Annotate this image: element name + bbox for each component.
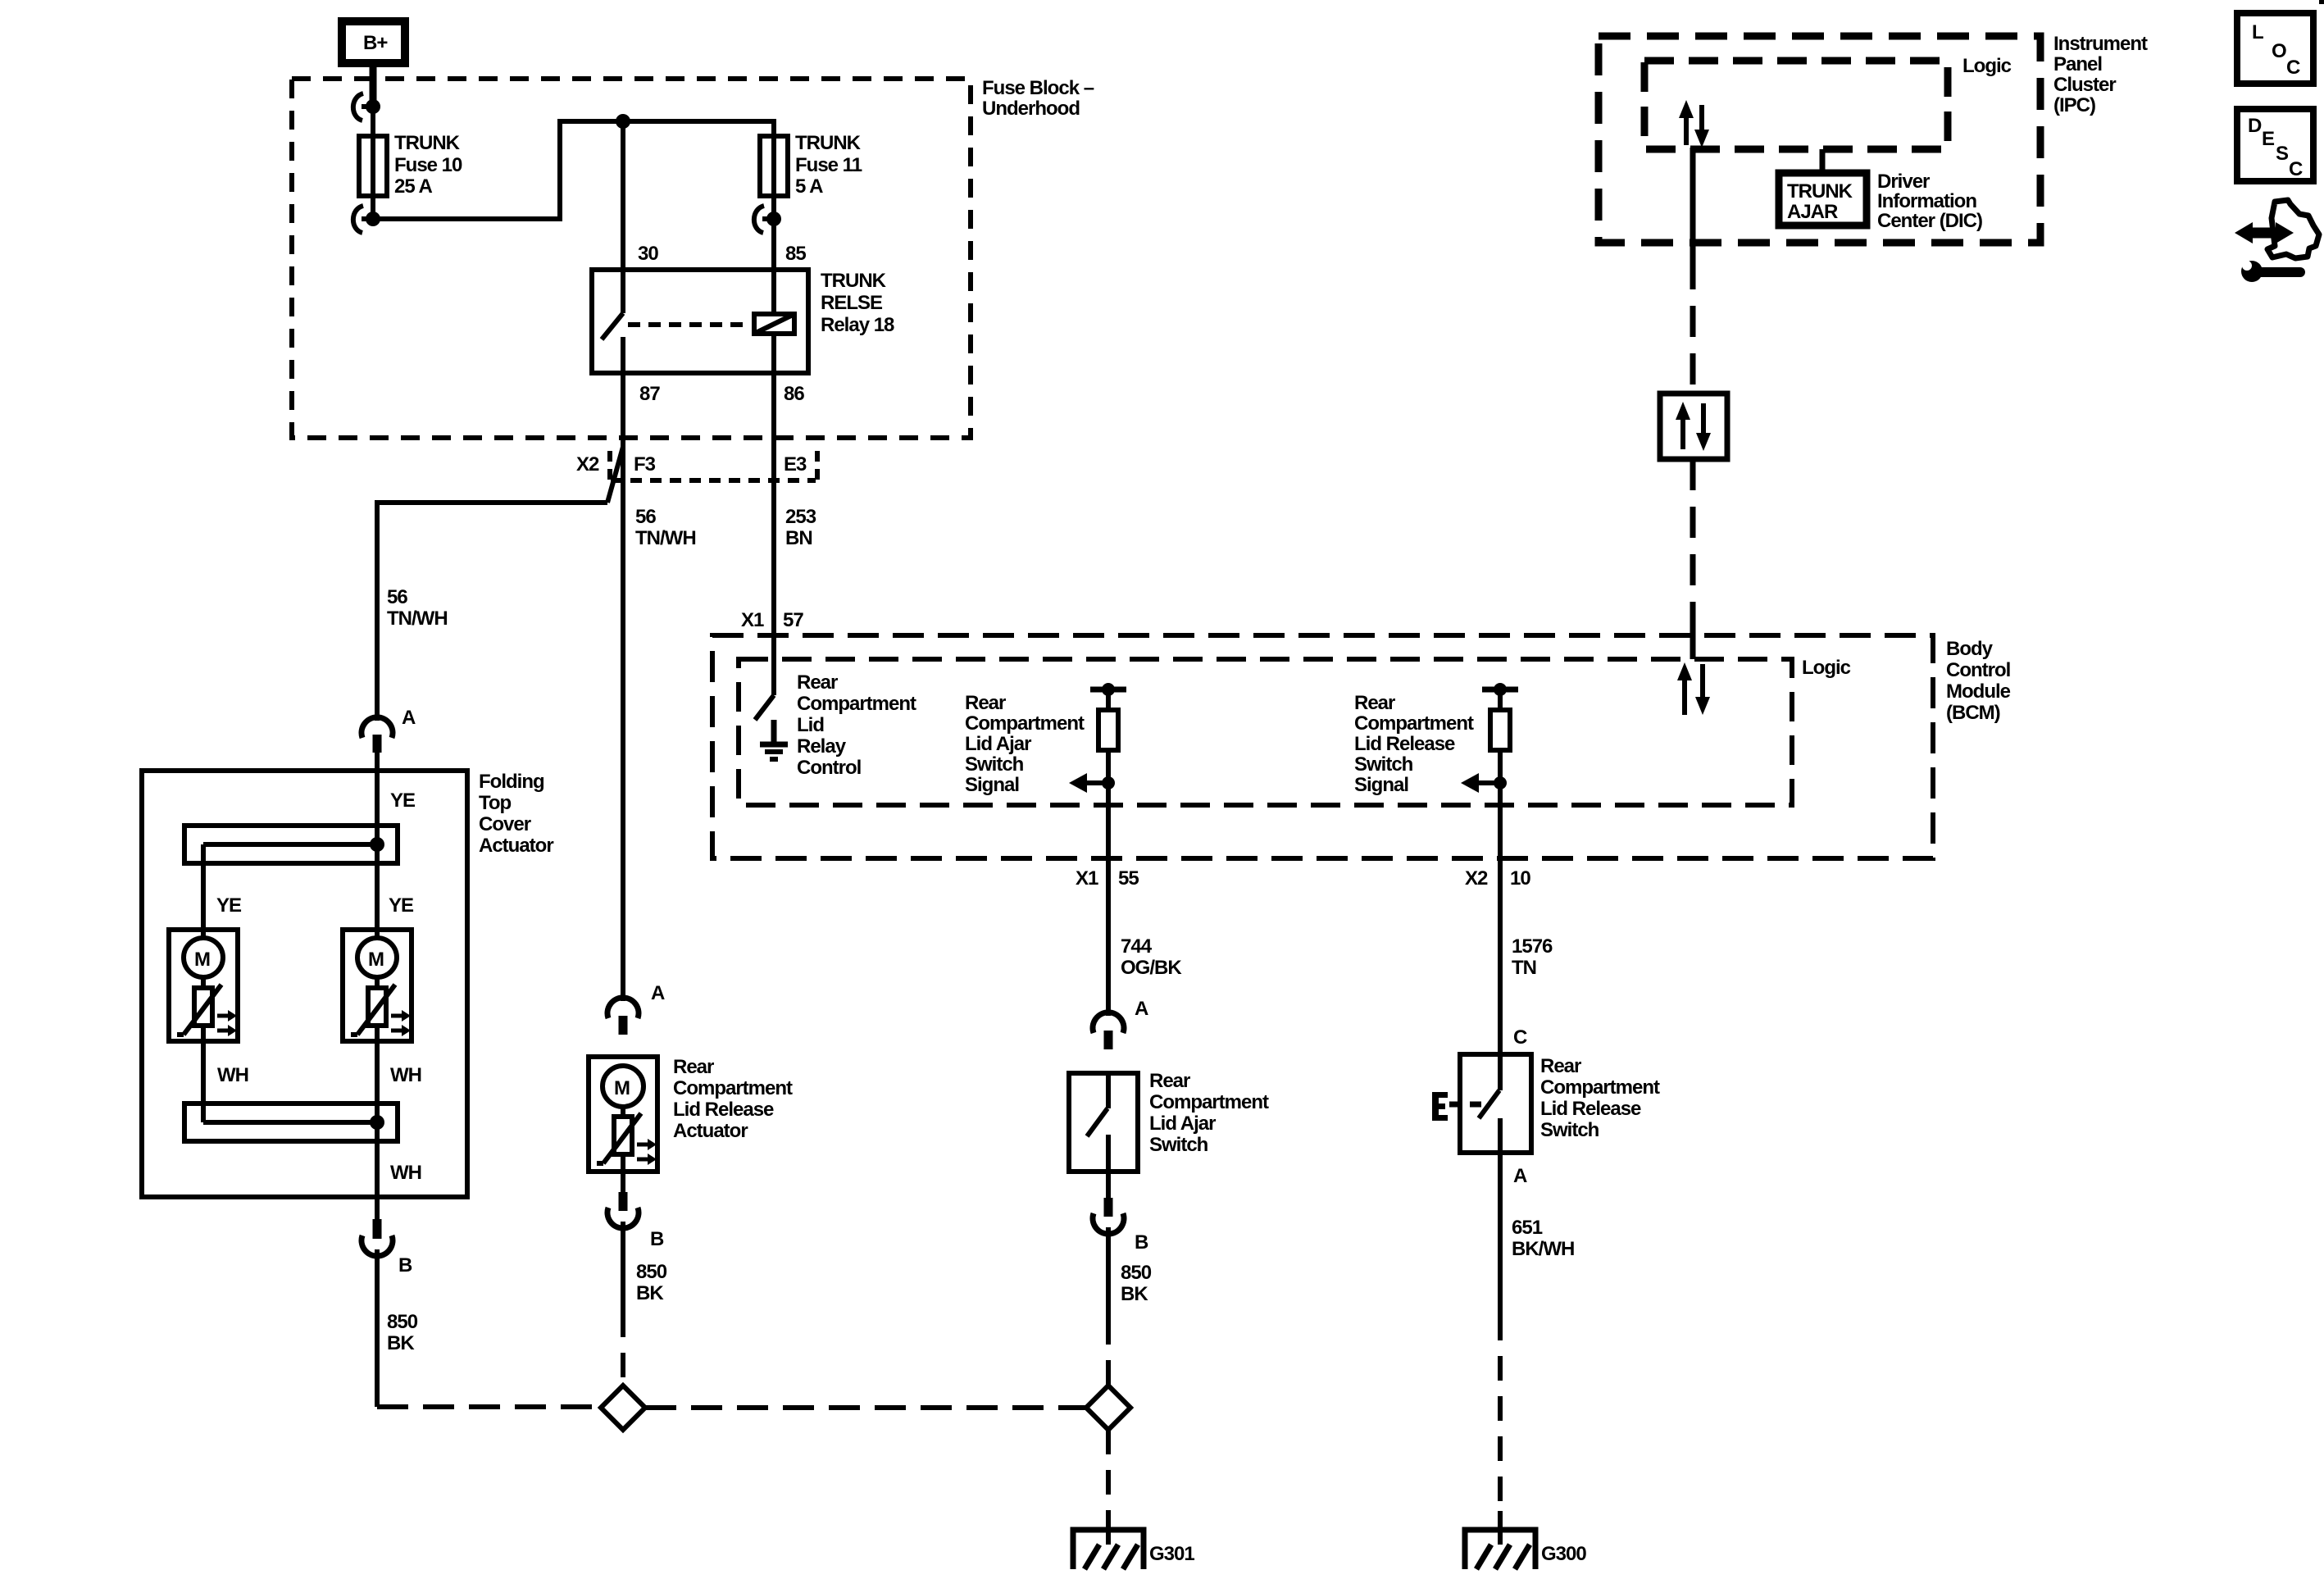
- wire left branch top: [201, 844, 206, 938]
- label Body Control Module (BCM): [1946, 638, 2011, 724]
- svg-text:Module: Module: [1946, 680, 2011, 703]
- svg-text:1576: 1576: [1512, 935, 1553, 958]
- svg-text:Panel: Panel: [2053, 53, 2102, 75]
- legend service icon wrench: [2241, 261, 2300, 282]
- svg-text:Rear: Rear: [1540, 1055, 1581, 1077]
- BCM relay control switch to ground: [755, 695, 788, 759]
- wire left branch bottom: [201, 1026, 206, 1122]
- label 744 OG/BK: [1121, 935, 1182, 979]
- svg-text:Center (DIC): Center (DIC): [1877, 210, 1982, 232]
- svg-text:253: 253: [785, 506, 816, 528]
- label 253 BN: [785, 506, 816, 549]
- svg-text:C: C: [2289, 158, 2303, 180]
- svg-text:TRUNK: TRUNK: [1787, 180, 1853, 202]
- svg-text:850: 850: [1121, 1262, 1152, 1284]
- svg-text:Lid Ajar: Lid Ajar: [1149, 1113, 1216, 1135]
- equalizer bar top: [184, 826, 398, 863]
- svg-text:85: 85: [785, 243, 806, 265]
- svg-text:B: B: [650, 1228, 664, 1250]
- svg-text:10: 10: [1510, 867, 1530, 890]
- fuse clip bottom of fuse 11: [754, 206, 781, 233]
- svg-text:(BCM): (BCM): [1946, 702, 2000, 724]
- svg-text:Signal: Signal: [965, 774, 1019, 796]
- label Rear Compartment Lid Ajar Switch: [1149, 1070, 1269, 1156]
- svg-text:Switch: Switch: [1354, 753, 1413, 776]
- label Rear Compartment Lid Release Switch: [1540, 1055, 1660, 1141]
- svg-text:Cluster: Cluster: [2053, 74, 2116, 96]
- svg-text:Lid Ajar: Lid Ajar: [965, 733, 1031, 755]
- label 850 BK ajar: [1121, 1262, 1152, 1305]
- svg-text:Body: Body: [1946, 638, 1994, 660]
- relay K18 TRUNK RELSE Relay 18: [592, 270, 894, 373]
- svg-text:Actuator: Actuator: [479, 835, 553, 857]
- label 651 BK/WH: [1512, 1217, 1574, 1260]
- wire 850 BK actuator to splice: [621, 1222, 625, 1386]
- svg-text:Rear: Rear: [1149, 1070, 1190, 1092]
- fuse clip bottom of fuse 10: [353, 206, 380, 233]
- svg-text:X1: X1: [1076, 867, 1098, 890]
- svg-text:86: 86: [784, 383, 804, 405]
- legend service icon trunk outline: [2267, 200, 2319, 258]
- svg-text:A: A: [402, 707, 416, 729]
- label Rear Compartment Lid Ajar Switch Signal: [965, 692, 1085, 796]
- svg-text:L: L: [2252, 21, 2263, 43]
- svg-text:Lid Release: Lid Release: [673, 1099, 774, 1121]
- svg-text:BK/WH: BK/WH: [1512, 1238, 1574, 1260]
- wire 850 BK ajar to splice 2: [1106, 1227, 1111, 1386]
- svg-text:B: B: [1135, 1231, 1148, 1254]
- svg-text:Rear: Rear: [797, 671, 838, 694]
- svg-text:A: A: [1135, 998, 1148, 1020]
- BCM serial data arrows: [1677, 662, 1710, 715]
- svg-text:Rear: Rear: [965, 692, 1006, 714]
- wire logic to trunk ajar indicator: [1820, 149, 1826, 173]
- wire 253 BN relay 86 to BCM: [771, 373, 776, 695]
- svg-text:57: 57: [783, 609, 803, 631]
- svg-text:F3: F3: [634, 453, 656, 476]
- wire resistor to X2 10: [1498, 750, 1503, 1054]
- svg-text:BK: BK: [636, 1282, 664, 1304]
- svg-text:744: 744: [1121, 935, 1153, 958]
- serial data gateway box with arrows: [1660, 394, 1727, 459]
- BCM ajar signal sense arrow: [1069, 773, 1115, 793]
- svg-text:Compartment: Compartment: [673, 1077, 793, 1099]
- connector A release actuator: [607, 982, 665, 1035]
- svg-text:Cover: Cover: [479, 813, 531, 835]
- svg-text:Lid Release: Lid Release: [1540, 1098, 1641, 1120]
- svg-text:E3: E3: [784, 453, 807, 476]
- connector B ajar switch: [1093, 1198, 1148, 1254]
- svg-text:Actuator: Actuator: [673, 1120, 748, 1142]
- ground G300: [1465, 1511, 1586, 1569]
- svg-text:X2: X2: [576, 453, 599, 476]
- svg-text:BK: BK: [387, 1332, 415, 1354]
- svg-text:Switch: Switch: [1149, 1134, 1208, 1156]
- svg-text:X1: X1: [741, 609, 764, 631]
- equalizer bar bottom: [184, 1103, 398, 1141]
- svg-text:WH: WH: [390, 1064, 421, 1086]
- svg-text:55: 55: [1118, 867, 1139, 890]
- svg-text:A: A: [1513, 1165, 1527, 1187]
- svg-text:Relay 18: Relay 18: [821, 314, 894, 336]
- svg-text:Compartment: Compartment: [1149, 1091, 1269, 1113]
- svg-text:Control: Control: [797, 757, 861, 779]
- wire fuse 11 to relay pin 85: [771, 136, 776, 270]
- svg-text:G300: G300: [1541, 1543, 1586, 1565]
- fuse F10 TRUNK Fuse 10 25 A: [359, 132, 462, 198]
- wire main feed through actuator: [375, 753, 380, 1219]
- connector X1 pin 55: [1076, 867, 1139, 890]
- IPC logic arrows: [1679, 100, 1709, 148]
- svg-text:B: B: [398, 1254, 412, 1276]
- fuse clip top of fuse 10: [353, 93, 380, 121]
- svg-text:YE: YE: [390, 789, 416, 812]
- svg-text:56: 56: [635, 506, 656, 528]
- motor M2 folding top right: [343, 930, 412, 1041]
- instrument panel cluster IPC outer box: [1599, 36, 2040, 243]
- svg-text:TN/WH: TN/WH: [635, 527, 696, 549]
- svg-text:Rear: Rear: [673, 1056, 714, 1078]
- body control module BCM outer box: [712, 635, 1933, 858]
- svg-text:O: O: [2272, 40, 2286, 62]
- svg-text:850: 850: [636, 1261, 667, 1283]
- label 56 TN/WH left branch: [387, 586, 448, 630]
- wire splice 2 to ground: [1106, 1430, 1111, 1518]
- connector X1 pin 57: [741, 609, 803, 631]
- label 850 BK folding: [387, 1311, 418, 1354]
- svg-text:Compartment: Compartment: [797, 693, 916, 715]
- IPC logic inner box: [1644, 61, 1948, 149]
- fuse block underhood box: [292, 79, 971, 438]
- svg-text:TRUNK: TRUNK: [795, 132, 862, 154]
- svg-text:Compartment: Compartment: [1354, 712, 1474, 735]
- svg-text:651: 651: [1512, 1217, 1543, 1239]
- BCM release signal sense arrow: [1461, 773, 1507, 793]
- BCM release switch signal pull-up resistor: [1482, 683, 1518, 750]
- wire B+ to fuse block: [370, 66, 377, 107]
- svg-text:OG/BK: OG/BK: [1121, 957, 1182, 979]
- svg-text:YE: YE: [216, 894, 242, 917]
- folding top cover actuator box: [142, 771, 467, 1197]
- wire ajar switch to connector B: [1106, 1172, 1111, 1198]
- rear compartment lid release actuator motor: [589, 1057, 657, 1172]
- svg-text:TN/WH: TN/WH: [387, 607, 448, 630]
- svg-text:AJAR: AJAR: [1787, 201, 1838, 223]
- svg-text:B+: B+: [363, 32, 388, 54]
- svg-text:30: 30: [638, 243, 658, 265]
- label Instrument Panel Cluster (IPC): [2053, 33, 2148, 116]
- svg-text:Compartment: Compartment: [1540, 1076, 1660, 1099]
- relay contact pin 30 to 87: [602, 270, 623, 373]
- svg-text:M: M: [368, 949, 384, 971]
- svg-text:Switch: Switch: [965, 753, 1024, 776]
- svg-text:RELSE: RELSE: [821, 292, 883, 314]
- wire 651 BK/WH to ground: [1498, 1153, 1503, 1518]
- svg-text:Fuse Block –: Fuse Block –: [982, 77, 1094, 99]
- svg-text:56: 56: [387, 586, 407, 608]
- motor M1 folding top left: [169, 930, 238, 1041]
- svg-text:Fuse 10: Fuse 10: [394, 154, 462, 176]
- svg-text:YE: YE: [389, 894, 414, 917]
- label Rear Compartment Lid Release Actuator: [673, 1056, 793, 1142]
- label Rear Compartment Lid Relay Control: [797, 671, 916, 779]
- svg-text:5 A: 5 A: [795, 175, 823, 198]
- legend LOC box: [2237, 13, 2313, 84]
- svg-text:E: E: [2262, 128, 2275, 150]
- svg-text:WH: WH: [390, 1162, 421, 1184]
- wire fuse 10 to fuse 11 feed: [373, 121, 774, 219]
- BCM ajar switch signal pull-up resistor: [1090, 683, 1126, 750]
- wire actuator to connector B: [621, 1154, 625, 1192]
- connector B release actuator: [607, 1192, 664, 1250]
- wire branch 56 TN/WH to folding top: [377, 447, 623, 721]
- svg-text:Control: Control: [1946, 659, 2010, 681]
- svg-text:TN: TN: [1512, 957, 1536, 979]
- svg-text:Signal: Signal: [1354, 774, 1408, 796]
- svg-text:M: M: [614, 1077, 630, 1099]
- wire 56 TN/WH from relay 87: [621, 373, 625, 1001]
- wire to fuse 10: [371, 107, 375, 219]
- svg-text:TRUNK: TRUNK: [394, 132, 461, 154]
- svg-text:Logic: Logic: [1962, 55, 2012, 77]
- svg-text:A: A: [651, 982, 665, 1004]
- relay coil pins 85-86: [754, 270, 794, 373]
- label 850 BK actuator: [636, 1261, 667, 1304]
- svg-text:TRUNK: TRUNK: [821, 270, 887, 292]
- label 56 TN/WH center: [635, 506, 696, 549]
- TRUNK AJAR indicator box: [1779, 173, 1867, 225]
- svg-text:(IPC): (IPC): [2053, 94, 2095, 116]
- fuse F11 TRUNK Fuse 11 5 A: [760, 132, 862, 198]
- wire resistor to X1 55: [1106, 750, 1111, 1016]
- svg-text:BN: BN: [785, 527, 812, 549]
- svg-text:M: M: [194, 949, 210, 971]
- dashed bus between splices: [645, 1405, 1086, 1410]
- label Fuse Block - Underhood: [982, 77, 1094, 120]
- legend service icon double arrow: [2235, 222, 2294, 243]
- relay actuating dashed link: [628, 322, 751, 327]
- wire 850 BK folding to splice: [377, 1249, 601, 1407]
- label Folding Top Cover Actuator: [479, 771, 553, 857]
- label Rear Compartment Lid Release Switch Signal: [1354, 692, 1474, 796]
- ground G301: [1073, 1511, 1194, 1569]
- svg-text:Compartment: Compartment: [965, 712, 1085, 735]
- svg-text:X2: X2: [1465, 867, 1488, 890]
- svg-text:Driver: Driver: [1877, 171, 1930, 193]
- connector A folding top actuator: [362, 707, 416, 753]
- page corner mark: [2319, 0, 2324, 4]
- svg-text:Relay: Relay: [797, 735, 847, 758]
- switch actuator E label and link: [1432, 1092, 1486, 1121]
- svg-text:Fuse 11: Fuse 11: [795, 154, 862, 176]
- svg-text:Top: Top: [479, 792, 512, 814]
- svg-text:C: C: [1513, 1026, 1527, 1049]
- label Driver Information Center (DIC): [1877, 171, 1982, 232]
- svg-text:S: S: [2276, 143, 2289, 165]
- splice diamond 1: [601, 1386, 645, 1430]
- svg-text:Folding: Folding: [479, 771, 544, 793]
- connector B folding top actuator: [362, 1219, 412, 1276]
- svg-text:C: C: [2286, 57, 2300, 79]
- svg-text:25 A: 25 A: [394, 175, 432, 198]
- node junction relay30 feed: [616, 114, 630, 129]
- wire serial data IPC to BCM: [1690, 148, 1696, 659]
- connector A ajar switch: [1093, 998, 1148, 1049]
- svg-text:WH: WH: [217, 1064, 248, 1086]
- rear compartment lid release switch: [1460, 1054, 1531, 1153]
- svg-text:Logic: Logic: [1802, 657, 1851, 679]
- battery feed B+ terminal: [342, 21, 405, 63]
- svg-text:Lid: Lid: [797, 714, 824, 736]
- svg-text:Information: Information: [1877, 190, 1976, 212]
- label 1576 TN: [1512, 935, 1553, 979]
- svg-text:D: D: [2248, 115, 2262, 137]
- svg-text:Lid Release: Lid Release: [1354, 733, 1455, 755]
- svg-text:Switch: Switch: [1540, 1119, 1599, 1141]
- splice diamond 2: [1086, 1386, 1130, 1430]
- rear compartment lid ajar switch: [1069, 1073, 1138, 1172]
- svg-text:87: 87: [639, 383, 660, 405]
- svg-text:Underhood: Underhood: [982, 98, 1080, 120]
- connector X2 F3 E3: [576, 451, 817, 480]
- connector X2 pin 10: [1465, 867, 1530, 890]
- wire junction to relay pin 30: [621, 121, 625, 270]
- svg-text:Rear: Rear: [1354, 692, 1395, 714]
- svg-text:Instrument: Instrument: [2053, 33, 2148, 55]
- svg-text:G301: G301: [1149, 1543, 1194, 1565]
- BCM logic inner box: [739, 659, 1792, 805]
- svg-text:850: 850: [387, 1311, 418, 1333]
- svg-text:BK: BK: [1121, 1283, 1148, 1305]
- legend DESC box: [2237, 109, 2313, 181]
